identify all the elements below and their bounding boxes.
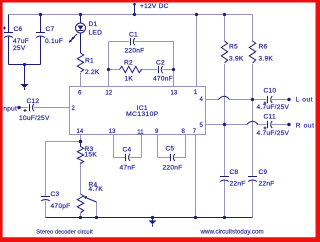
svg-text:22nF: 22nF	[230, 181, 246, 188]
svg-text:12: 12	[106, 90, 113, 96]
svg-text:0.1uF: 0.1uF	[45, 38, 63, 45]
capacitor C12	[24, 104, 34, 112]
wire R4 to rail	[80, 213, 82, 218]
svg-text:R6: R6	[259, 44, 268, 51]
svg-text:10uF/25V: 10uF/25V	[19, 115, 50, 122]
capacitor C5	[171, 154, 175, 161]
input terminal	[17, 106, 20, 109]
svg-text:C6: C6	[14, 26, 23, 33]
node C8 junction	[223, 216, 226, 219]
capacitor C2	[159, 66, 163, 73]
wire pin5 left segment	[206, 124, 248, 126]
R out terminal	[287, 123, 290, 126]
resistor R3	[77, 142, 83, 164]
node top rail C7 junction	[39, 13, 42, 16]
wire C1 loop top left	[109, 41, 130, 43]
resistor R6	[249, 41, 255, 63]
wire pin4 mid segment	[230, 99, 267, 101]
wire C1 loop top right	[135, 41, 174, 43]
+12V DC supply stub	[134, 4, 136, 15]
wire pin5 right of C11	[272, 124, 289, 126]
wire R6 rail upper	[252, 15, 254, 42]
wire C3 branch upper	[45, 142, 47, 197]
svg-text:Stereo decoder circuit: Stereo decoder circuit	[36, 229, 93, 235]
wire R5 rail below C8	[224, 181, 226, 218]
wire C5 horizontal left	[158, 157, 171, 159]
svg-text:1K: 1K	[125, 76, 134, 83]
wire C6-C7 ground bus	[9, 64, 41, 66]
svg-text:R2: R2	[124, 60, 133, 67]
node pin13 loop junction	[172, 68, 175, 71]
svg-text:47nF: 47nF	[120, 165, 136, 172]
svg-text:470pF: 470pF	[51, 203, 71, 210]
svg-text:47uF: 47uF	[13, 38, 29, 45]
ground (bottom)	[149, 218, 157, 227]
wire C3 branch lower	[45, 201, 47, 218]
wire ground rail bottom	[46, 217, 253, 219]
wire R2 left segment	[109, 69, 120, 71]
svg-text:C10: C10	[264, 88, 277, 95]
capacitor C7	[36, 15, 45, 65]
node top rail supply junction	[133, 13, 136, 16]
svg-text:C12: C12	[27, 98, 40, 105]
svg-text:D1: D1	[89, 21, 98, 28]
svg-text:220nF: 220nF	[163, 165, 183, 172]
resistor R1	[77, 53, 83, 72]
resistor R2	[120, 66, 142, 72]
wire pin12 stub	[108, 42, 110, 87]
wire R5 rail lower	[224, 64, 226, 177]
wire pin6 stub	[80, 73, 82, 87]
capacitor C6	[3, 15, 13, 65]
wire input to C12	[19, 107, 29, 109]
node pin12 loop junction	[107, 68, 110, 71]
svg-text:C2: C2	[156, 60, 165, 67]
svg-text:R5: R5	[229, 44, 238, 51]
svg-text:+12V DC: +12V DC	[140, 3, 169, 10]
svg-text:13: 13	[171, 90, 178, 96]
wire pin5 mid segment	[258, 124, 267, 126]
svg-text:4.7K: 4.7K	[89, 186, 104, 193]
wire R5 rail upper	[224, 15, 226, 42]
svg-text:L out: L out	[296, 96, 313, 103]
wire R6 rail lower	[252, 64, 254, 177]
svg-text:11: 11	[137, 130, 144, 136]
svg-text:C8: C8	[230, 169, 239, 176]
wire pin14 stub	[80, 135, 82, 142]
wire pin8 stub	[185, 135, 187, 158]
resistor R5	[221, 41, 227, 63]
wire R4 wiper vertical	[96, 202, 98, 218]
wire C4 horizontal right	[130, 157, 142, 159]
wire pin11 stub	[141, 135, 143, 158]
node wiper junction	[95, 216, 98, 219]
resistor R4 (preset)	[77, 194, 83, 213]
wire R6 rail below C9	[252, 181, 254, 218]
svg-text:R1: R1	[85, 58, 94, 65]
wire C12 to pin2	[34, 107, 70, 109]
wire pin14 to C3 branch	[46, 141, 81, 143]
svg-text:220nF: 220nF	[125, 48, 145, 55]
svg-text:13: 13	[109, 129, 116, 135]
svg-text:3.9K: 3.9K	[259, 56, 274, 63]
capacitor C4	[126, 154, 131, 161]
capacitor C9	[248, 177, 257, 182]
node R4 bottom junction	[79, 216, 82, 219]
node top rail LED junction	[79, 13, 82, 16]
svg-text:4.7uF/25V: 4.7uF/25V	[257, 104, 290, 111]
capacitor C1	[131, 38, 135, 45]
IC box outline	[70, 87, 206, 135]
node top rail pin1 junction	[195, 13, 198, 16]
svg-text:R out: R out	[296, 122, 315, 129]
svg-text:C11: C11	[264, 113, 276, 120]
svg-text:470nF: 470nF	[153, 76, 173, 83]
wire C4 horizontal left	[114, 157, 126, 159]
node ground junction	[151, 216, 154, 219]
svg-text:C3: C3	[51, 191, 60, 198]
node pin14 junction	[79, 140, 83, 144]
svg-text:4.7uF/25V: 4.7uF/25V	[257, 130, 290, 137]
node pin7 junction	[194, 216, 197, 219]
R4 wiper arrow	[86, 198, 97, 203]
wire pin1 to +12V rail	[196, 15, 198, 87]
svg-text:MC1310P: MC1310P	[126, 111, 159, 118]
ground (top-left)	[20, 65, 28, 91]
node junction C6 bus	[23, 63, 26, 66]
wire pin13 bottom stub	[113, 135, 115, 158]
L out terminal	[287, 98, 290, 101]
wire C5 horizontal right	[175, 157, 186, 159]
node pin4-R6 junction	[251, 98, 254, 101]
capacitor C11	[264, 121, 273, 130]
wire pin13 top stub	[173, 42, 175, 87]
svg-text:C4: C4	[123, 146, 132, 153]
svg-text:2.2K: 2.2K	[85, 69, 100, 76]
svg-text:3.9K: 3.9K	[229, 56, 244, 63]
wire pin7 to ground rail	[195, 135, 197, 218]
capacitor C10	[264, 96, 273, 105]
svg-text:22nF: 22nF	[259, 181, 275, 188]
svg-text:www.circuitstoday.com: www.circuitstoday.com	[200, 229, 264, 236]
capacitor C8	[220, 177, 229, 182]
wire R3 to R4	[80, 162, 82, 194]
wire pin9 stub	[157, 135, 159, 158]
wire pin4 hop over R5 rail	[219, 96, 230, 99]
LED D1	[69, 15, 86, 54]
svg-text:input: input	[2, 105, 18, 112]
svg-text:15K: 15K	[85, 152, 98, 159]
svg-text:C5: C5	[166, 145, 175, 152]
svg-text:14: 14	[77, 129, 84, 135]
svg-text:C7: C7	[46, 26, 55, 33]
wire pin4 left segment	[206, 99, 219, 101]
wire R2-C2 segment	[140, 69, 157, 71]
svg-text:LED: LED	[89, 30, 103, 37]
wire pin5 hop over R6 rail	[247, 121, 258, 124]
wire +12V top rail	[9, 14, 253, 16]
capacitor C3	[41, 197, 50, 202]
wire C2 right segment	[163, 69, 174, 71]
node top rail R5 junction	[223, 13, 226, 16]
svg-text:C9: C9	[259, 169, 268, 176]
svg-text:C1: C1	[129, 32, 138, 39]
wire pin4 right of C10	[272, 99, 289, 101]
svg-text:25V: 25V	[13, 45, 26, 52]
node pin5-R5 junction	[223, 123, 226, 126]
